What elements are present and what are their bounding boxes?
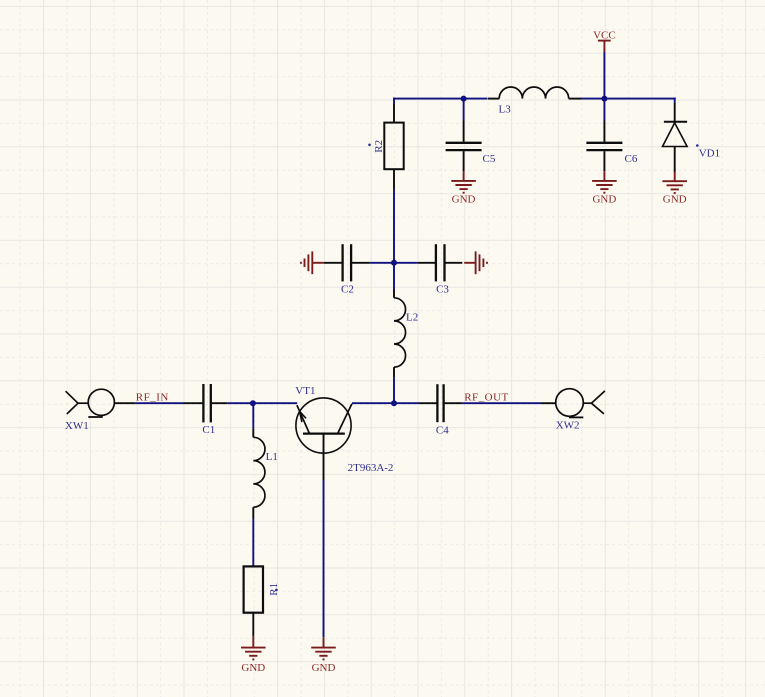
node junction C5 tap — [461, 96, 467, 102]
diode VD1 — [663, 103, 688, 172]
resistor R2 — [384, 104, 403, 189]
resistor R1 — [244, 566, 263, 635]
connector XW2 — [542, 389, 605, 418]
svg-text:R2: R2 — [373, 140, 385, 153]
capacitor C3 — [418, 244, 463, 281]
node junction L2 collector C4 — [391, 400, 397, 406]
wire RF_IN net — [135, 402, 184, 404]
wire R2 to C2C3 junction — [393, 189, 395, 263]
svg-text:L2: L2 — [406, 311, 418, 323]
wire C1 to emitter node — [227, 402, 253, 404]
ground under R1 — [241, 636, 266, 675]
svg-text:L3: L3 — [499, 103, 512, 115]
svg-text:GND: GND — [452, 194, 476, 206]
wire junction to C3 — [394, 262, 418, 264]
wire top rail right segment — [582, 98, 676, 103]
ground port right of C3 — [475, 251, 477, 274]
inductor L3 — [488, 87, 582, 99]
svg-text:VT1: VT1 — [295, 385, 315, 397]
node junction R2 L2 C2 C3 — [391, 260, 397, 266]
svg-text:GND: GND — [312, 662, 336, 674]
svg-text:GND: GND — [663, 194, 687, 206]
power VCC — [593, 30, 616, 52]
svg-text:C1: C1 — [202, 424, 215, 436]
svg-text:C2: C2 — [341, 284, 354, 296]
label VD1 — [696, 144, 720, 159]
wire L2 to collector node — [393, 377, 395, 403]
wire C2 to junction — [369, 262, 394, 264]
inductor L1 — [253, 403, 265, 518]
svg-text:RF_IN: RF_IN — [136, 392, 169, 404]
ground under VD1 — [662, 172, 687, 206]
wire node to emitter — [253, 402, 297, 404]
capacitor C2 — [324, 244, 370, 281]
svg-text:C6: C6 — [625, 153, 638, 165]
wire collector to C4 — [352, 402, 419, 404]
wire top rail left segment — [393, 98, 487, 104]
label R1 — [268, 583, 280, 596]
ground under C5 — [451, 171, 476, 205]
capacitor C5 — [446, 99, 482, 172]
svg-text:VD1: VD1 — [699, 147, 720, 159]
capacitor C4 — [419, 384, 462, 422]
node junction VCC / C6 tap — [601, 96, 607, 102]
svg-text:2T963A-2: 2T963A-2 — [348, 462, 394, 474]
wire VCC to top rail — [603, 52, 605, 99]
capacitor C6 — [586, 99, 622, 172]
inductor L2 — [394, 263, 406, 378]
svg-text:C4: C4 — [436, 425, 449, 437]
svg-text:L1: L1 — [266, 451, 278, 463]
svg-text:C3: C3 — [436, 284, 449, 296]
svg-text:GND: GND — [241, 662, 265, 674]
svg-text:GND: GND — [592, 194, 616, 206]
capacitor C1 — [184, 384, 228, 422]
transistor VT1 — [296, 398, 352, 480]
svg-text:XW1: XW1 — [65, 420, 89, 432]
wire RF_OUT net — [462, 402, 541, 404]
ground under VT1 base — [311, 637, 336, 674]
svg-text:R1: R1 — [268, 583, 280, 596]
svg-text:XW2: XW2 — [556, 419, 580, 431]
node junction C1 L1 emitter — [250, 400, 256, 406]
svg-text:C5: C5 — [483, 153, 496, 165]
svg-text:RF_OUT: RF_OUT — [464, 392, 509, 404]
ground port left of C2 — [311, 251, 313, 274]
label R2 — [368, 140, 385, 153]
connector XW1 — [66, 389, 135, 417]
wire base to ground — [323, 480, 325, 637]
wire L1 to R1 — [252, 519, 254, 567]
ground under C6 — [592, 171, 617, 205]
